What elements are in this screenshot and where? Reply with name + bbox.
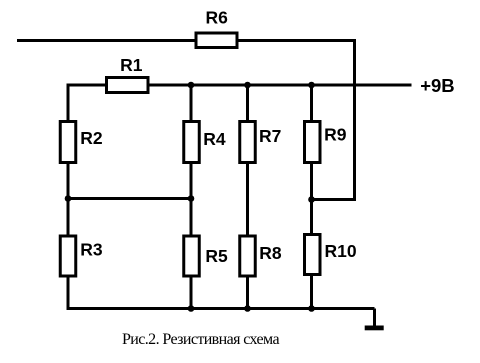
wire mid link R2-R4 bottoms [68, 197, 191, 200]
svg-text:R5: R5 [205, 246, 228, 266]
wire column R4/R5 [190, 85, 193, 309]
svg-text:R4: R4 [203, 129, 226, 149]
wire bottom rail [67, 307, 375, 310]
node R8 bottom junction [244, 305, 251, 312]
svg-text:R2: R2 [80, 128, 103, 148]
resistor R1 body [107, 78, 149, 93]
resistor R7 body [240, 122, 256, 163]
resistor R2 body [60, 122, 76, 163]
wire right vertical from R6 down to R9/R10 node [353, 39, 356, 201]
wire column R9/R10 [310, 85, 313, 309]
node R10 bottom junction [308, 305, 315, 312]
wire ground drop [373, 309, 376, 328]
node R4 top junction [188, 82, 195, 89]
resistor R5 body [184, 236, 200, 276]
svg-text:R1: R1 [120, 55, 143, 75]
node R4/R5 mid junction [188, 195, 195, 202]
svg-text:R9: R9 [324, 125, 347, 145]
svg-text:R7: R7 [259, 126, 281, 146]
ground [365, 326, 384, 331]
svg-text:R10: R10 [325, 241, 357, 261]
node R5 bottom junction [188, 305, 195, 312]
node R2/R3 mid junction [65, 195, 72, 202]
wire column R7/R8 [246, 85, 249, 309]
resistor R6 body [196, 33, 237, 48]
resistor R3 body [60, 236, 76, 276]
node R9/R10 mid junction [308, 196, 315, 203]
node R7 top junction [244, 82, 251, 89]
wire column R2/R3 [67, 84, 70, 311]
node R9 top junction [308, 82, 315, 89]
svg-text:R3: R3 [80, 239, 103, 259]
resistor R4 body [184, 122, 200, 163]
svg-text:+9В: +9В [420, 75, 454, 96]
resistor R9 body [305, 122, 321, 163]
svg-text:R8: R8 [259, 243, 282, 263]
wire link R9/R10 node to right vertical [312, 198, 355, 201]
resistor R10 body [305, 235, 321, 275]
svg-text:R6: R6 [206, 8, 229, 28]
wire top rail (R6 branch) [17, 39, 355, 42]
svg-text:Рис.2. Резистивная схема: Рис.2. Резистивная схема [122, 331, 279, 348]
wire +9V rail [67, 84, 412, 87]
resistor R8 body [240, 236, 256, 276]
